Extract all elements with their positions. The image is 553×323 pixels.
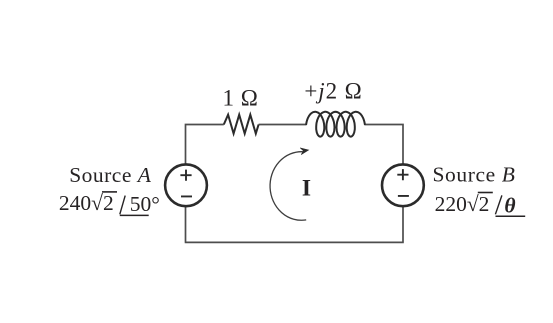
svg-text:Source A: Source A xyxy=(69,163,152,187)
svg-text:1: 1 xyxy=(223,85,235,110)
svg-text:240√2: 240√2 xyxy=(59,191,114,215)
svg-text:+j2 Ω: +j2 Ω xyxy=(304,78,362,103)
svg-text:I: I xyxy=(302,176,311,202)
svg-text:Source B: Source B xyxy=(433,162,516,186)
svg-text:50°: 50° xyxy=(130,192,160,216)
svg-text:Ω: Ω xyxy=(241,85,258,110)
svg-text:θ: θ xyxy=(504,194,515,218)
svg-text:220√2: 220√2 xyxy=(435,192,490,216)
